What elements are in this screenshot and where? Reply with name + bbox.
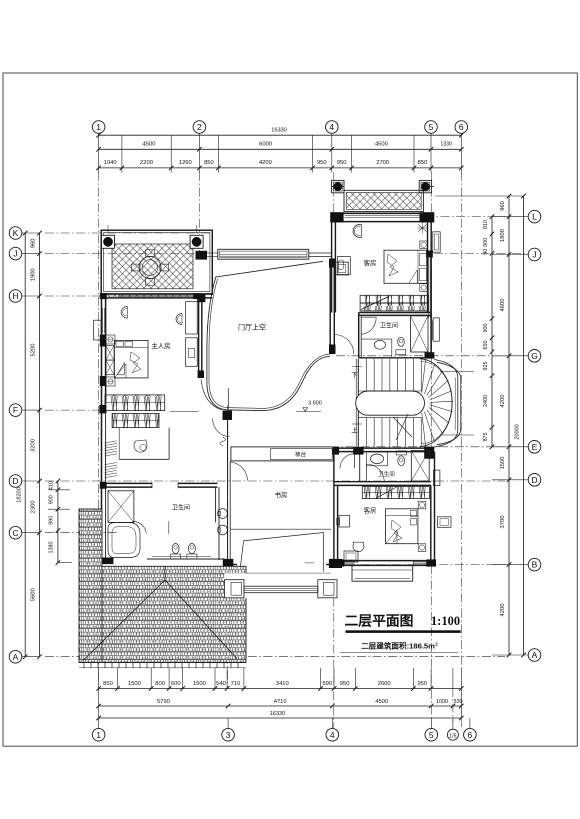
- svg-text:2200: 2200: [140, 160, 153, 166]
- svg-text:3.600: 3.600: [308, 401, 322, 407]
- svg-text:4: 4: [330, 730, 335, 740]
- svg-text:925: 925: [483, 362, 489, 371]
- svg-text:卫生间: 卫生间: [380, 322, 398, 330]
- svg-text:J: J: [13, 249, 17, 259]
- svg-text:3700: 3700: [500, 516, 506, 529]
- svg-text:600: 600: [171, 681, 181, 687]
- svg-text:4200: 4200: [259, 160, 272, 166]
- svg-text:850: 850: [418, 160, 428, 166]
- svg-text:1500: 1500: [500, 457, 506, 470]
- svg-text:1900: 1900: [31, 268, 37, 281]
- svg-text:2700: 2700: [376, 160, 389, 166]
- svg-text:1/5: 1/5: [449, 734, 456, 740]
- svg-text:6: 6: [459, 122, 464, 132]
- svg-text:6: 6: [468, 730, 473, 740]
- svg-text:4500: 4500: [143, 141, 156, 147]
- svg-text:A: A: [532, 650, 538, 660]
- svg-text:5790: 5790: [157, 699, 170, 705]
- svg-text:875: 875: [483, 433, 489, 442]
- svg-text:A: A: [13, 652, 19, 662]
- svg-text:客房: 客房: [364, 506, 377, 515]
- svg-text:4: 4: [329, 122, 334, 132]
- svg-text:4500: 4500: [375, 699, 388, 705]
- svg-text:650: 650: [483, 341, 489, 350]
- svg-text:2400: 2400: [483, 395, 489, 407]
- svg-text:1: 1: [96, 730, 101, 740]
- svg-text:900: 900: [483, 324, 489, 333]
- svg-text:卫生间: 卫生间: [378, 470, 395, 478]
- svg-text:4200: 4200: [500, 395, 506, 408]
- svg-text:1040: 1040: [104, 160, 117, 166]
- svg-text:1800: 1800: [500, 229, 506, 242]
- svg-text:E: E: [532, 442, 538, 452]
- svg-text:16330: 16330: [271, 128, 287, 134]
- svg-text:960: 960: [31, 238, 37, 248]
- svg-text:上: 上: [351, 426, 358, 435]
- svg-text:1500: 1500: [193, 681, 206, 687]
- svg-text:5600: 5600: [31, 588, 37, 601]
- svg-text:1: 1: [96, 122, 101, 132]
- svg-text:4710: 4710: [274, 699, 287, 705]
- svg-text:5: 5: [429, 122, 434, 132]
- svg-text:6000: 6000: [259, 141, 272, 147]
- svg-text:5200: 5200: [31, 344, 37, 357]
- svg-text:900: 900: [483, 238, 489, 247]
- svg-text:950: 950: [417, 681, 427, 687]
- svg-text:1260: 1260: [179, 160, 192, 166]
- svg-text:L: L: [532, 212, 537, 222]
- svg-text:1000: 1000: [436, 699, 448, 705]
- svg-text:1380: 1380: [49, 542, 55, 554]
- svg-text:K: K: [13, 228, 19, 238]
- svg-text:2600: 2600: [378, 681, 391, 687]
- svg-text:20000: 20000: [515, 424, 521, 440]
- svg-text:客房: 客房: [364, 258, 377, 267]
- svg-text:850: 850: [103, 681, 113, 687]
- svg-text:门厅上空: 门厅上空: [238, 322, 266, 331]
- svg-text:800: 800: [155, 681, 165, 687]
- svg-text:1500: 1500: [128, 681, 141, 687]
- svg-text:410: 410: [49, 481, 55, 490]
- svg-text:16330: 16330: [270, 711, 286, 717]
- svg-text:710: 710: [231, 681, 241, 687]
- svg-text:950: 950: [340, 681, 350, 687]
- svg-text:5: 5: [429, 730, 434, 740]
- svg-text:4200: 4200: [500, 604, 506, 617]
- svg-text:4500: 4500: [375, 141, 388, 147]
- svg-text:810: 810: [483, 220, 489, 229]
- svg-text:下: 下: [351, 371, 358, 379]
- svg-text:卫生间: 卫生间: [172, 504, 190, 512]
- svg-text:590: 590: [322, 681, 332, 687]
- svg-text:D: D: [531, 475, 537, 485]
- svg-text:二层建筑面积:186.5m: 二层建筑面积:186.5m: [361, 641, 435, 651]
- svg-text:950: 950: [317, 160, 327, 166]
- svg-text:4600: 4600: [500, 299, 506, 312]
- svg-text:540: 540: [216, 681, 226, 687]
- svg-text:C: C: [12, 528, 18, 538]
- svg-text:2300: 2300: [31, 500, 37, 513]
- svg-text:900: 900: [49, 495, 55, 504]
- svg-text:2: 2: [197, 122, 202, 132]
- svg-text:1330: 1330: [440, 141, 452, 147]
- svg-text:3: 3: [226, 730, 231, 740]
- svg-text:G: G: [531, 351, 538, 361]
- svg-text:J: J: [532, 250, 536, 260]
- svg-text:3200: 3200: [31, 439, 37, 452]
- svg-text:H: H: [12, 291, 18, 301]
- svg-text:960: 960: [500, 201, 506, 211]
- svg-text:主人房: 主人房: [151, 341, 170, 350]
- svg-text:950: 950: [337, 160, 347, 166]
- svg-text:1:100: 1:100: [431, 614, 460, 628]
- svg-text:990: 990: [49, 516, 55, 525]
- svg-text:850: 850: [204, 160, 214, 166]
- svg-text:B: B: [532, 560, 538, 570]
- svg-text:90: 90: [483, 249, 489, 255]
- svg-text:18200: 18200: [17, 487, 23, 503]
- svg-text:二层平面图: 二层平面图: [345, 613, 414, 628]
- svg-text:神台: 神台: [295, 450, 307, 458]
- svg-text:F: F: [13, 405, 18, 415]
- svg-text:D: D: [12, 476, 18, 486]
- svg-text:书房: 书房: [275, 490, 288, 499]
- svg-text:3410: 3410: [276, 681, 289, 687]
